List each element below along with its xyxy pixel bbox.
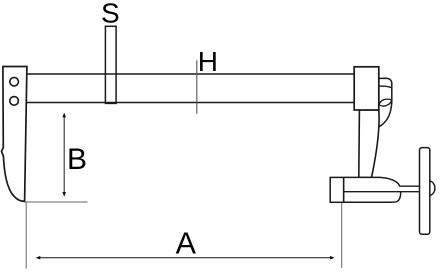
- svg-text:H: H: [198, 46, 218, 77]
- svg-text:B: B: [67, 143, 87, 176]
- svg-text:S: S: [101, 0, 120, 29]
- svg-text:A: A: [176, 227, 197, 261]
